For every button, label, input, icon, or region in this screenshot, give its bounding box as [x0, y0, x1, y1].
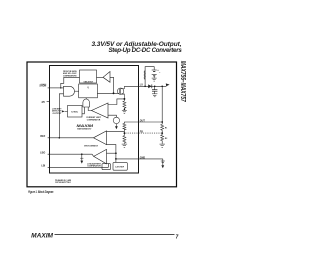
svg-text:GND: GND — [140, 156, 146, 159]
ground below R2 — [122, 144, 127, 147]
comparator CMP1 current limit — [92, 103, 109, 118]
capacitor C2 — [152, 90, 157, 92]
svg-text:LBO: LBO — [40, 152, 45, 155]
wire FB dashed line — [125, 132, 162, 134]
output arrow on LX rail — [166, 83, 170, 86]
svg-text:R2: R2 — [165, 138, 167, 140]
resistor R2 external — [161, 135, 164, 141]
current source I1 — [113, 117, 119, 123]
wire inductor L1 branch — [145, 67, 154, 87]
wire LBO pin to comparator A2 output — [48, 154, 94, 156]
junction LX rail inductor — [144, 85, 146, 87]
svg-text:MAXIM: MAXIM — [31, 232, 53, 239]
wire LBO pulldown stub — [81, 154, 83, 160]
svg-text:COMPARATOR: COMPARATOR — [87, 165, 101, 168]
ground below C2 — [152, 94, 157, 97]
comparator A1 error comparator — [93, 131, 106, 145]
junction REF line to A2 — [115, 152, 117, 154]
svg-text:OUTPUT: OUTPUT — [53, 113, 63, 115]
AND gate G1 — [64, 86, 75, 96]
input arrow into U4 — [62, 110, 65, 112]
comparator A2 low-battery comparator — [94, 149, 107, 164]
IC box MAX756/MAX757 — [50, 66, 139, 174]
wire REF pin to comparator A1 output node — [48, 137, 94, 139]
junction REF line to GND pin wire — [115, 158, 117, 160]
wire A2 input from reference line — [107, 152, 116, 154]
junction OUT pin node — [161, 121, 163, 123]
wire A1 inverting input down to reference U5 — [107, 145, 116, 163]
svg-text:MAX756–MAX757: MAX756–MAX757 — [179, 61, 188, 103]
wire vertical A1 output up to gate G1 input 2 — [59, 94, 63, 138]
svg-text:Figure 1. Block Diagram: Figure 1. Block Diagram — [28, 190, 53, 194]
svg-text:LX: LX — [140, 84, 143, 87]
wire LBI pin to comparator A2 inverting input — [48, 164, 109, 168]
junction at Q1 source sense node — [123, 98, 125, 100]
ground arrow on GND pin — [161, 161, 165, 163]
wire internal divider node links — [123, 130, 125, 136]
wire LX rail from Q1 drain to output arrow — [124, 85, 166, 87]
svg-text:FOR THE MAX757 ONLY.: FOR THE MAX757 ONLY. — [55, 181, 71, 184]
footer rule — [55, 234, 175, 236]
figure outer border — [27, 62, 177, 187]
wire external divider node link — [161, 130, 163, 134]
wire sense tap to CMP1 input 1 — [108, 99, 124, 105]
ground below external divider — [160, 144, 165, 147]
resistor Rsense — [123, 99, 126, 110]
wire 3/5 pin stub — [47, 100, 50, 102]
svg-text:3/5: 3/5 — [41, 101, 45, 104]
flip-flop U3 — [79, 84, 98, 98]
driver T1 — [103, 72, 110, 83]
wire GND pin ground arrow stub — [162, 159, 164, 165]
oscillator U4 — [68, 106, 83, 118]
wire one-shot U2 output to driver T1 apex — [97, 76, 104, 78]
wire GND pin line — [116, 158, 163, 160]
wire internal divider top to OUT line — [124, 122, 138, 123]
svg-text:FB: FB — [140, 131, 143, 134]
node FB internal divider — [124, 132, 126, 134]
junction on A1 output wire — [59, 137, 61, 139]
MOSFET Q1 — [117, 86, 124, 99]
junction on gate drive line — [113, 92, 115, 94]
junction at SHDN branch — [60, 87, 61, 88]
svg-text:R1: R1 — [165, 128, 167, 130]
wire driver T1 base to gate drive line — [110, 77, 114, 93]
wire comparator CMP1 output to up-gate G2 right input — [88, 107, 91, 111]
wire flip-flop U3 output to MOSFET Q1 gate — [97, 92, 119, 94]
svg-text:MAXIM: MAXIM — [77, 123, 94, 128]
LBO pulldown arrow — [80, 161, 83, 164]
svg-text:OUT: OUT — [140, 120, 146, 123]
wire output node vertical — [161, 86, 163, 124]
wire SHDN pin to gate G1 input 1 — [48, 87, 64, 89]
svg-text:–: – — [159, 71, 161, 74]
svg-text:SHDN: SHDN — [39, 85, 46, 88]
one-shot U2 — [80, 70, 97, 83]
svg-text:ERROR COMPARATOR: ERROR COMPARATOR — [84, 144, 98, 147]
svg-text:ONE-SHOT: ONE-SHOT — [84, 81, 94, 83]
ground below battery — [152, 78, 157, 81]
wire CMP1 input 2 to current source I1 — [108, 115, 116, 117]
up-gate G2 — [83, 99, 90, 107]
svg-text:REF: REF — [40, 135, 45, 138]
svg-text:COMPARATOR: COMPARATOR — [87, 118, 101, 121]
inductor L1 — [144, 71, 145, 80]
node FB external divider — [161, 132, 163, 134]
node VOUT on rail — [161, 85, 163, 87]
resistor R2 internal — [123, 136, 126, 144]
wire external divider bottom stub — [161, 141, 163, 144]
wire output cap C2 stub — [154, 86, 156, 89]
wire battery to ground stub — [153, 76, 155, 78]
wire up-gate G2 output into flip-flop U3 — [85, 98, 87, 99]
svg-text:7: 7 — [176, 235, 179, 241]
junction LX rail capacitor — [154, 85, 156, 87]
battery B1 — [152, 70, 157, 76]
wire A1 non-inverting input to divider node — [107, 131, 125, 133]
svg-text:COMPARATORS: COMPARATORS — [63, 74, 77, 77]
diode D1 — [148, 84, 151, 88]
svg-text:1.25V REF: 1.25V REF — [115, 166, 125, 168]
wire OUT pin to output node — [139, 121, 163, 123]
svg-text:Step-Up DC-DC Converters: Step-Up DC-DC Converters — [108, 47, 182, 54]
wire oscillator U4 output to up-gate G2 left input — [82, 107, 84, 114]
block U6 — [102, 164, 111, 170]
svg-text:LBI: LBI — [41, 165, 45, 168]
resistor R1 external — [161, 124, 164, 130]
junction LBO pulldown — [81, 153, 83, 155]
svg-text:MAX756/MAX757: MAX756/MAX757 — [77, 127, 92, 130]
wire branch up to one-shot U2 input — [61, 77, 80, 88]
resistor R1 internal — [123, 123, 126, 130]
svg-text:OSC: OSC — [71, 111, 79, 113]
ground below Rsense — [122, 110, 127, 113]
svg-text:Q: Q — [87, 87, 89, 89]
reference block U5 — [113, 162, 127, 170]
